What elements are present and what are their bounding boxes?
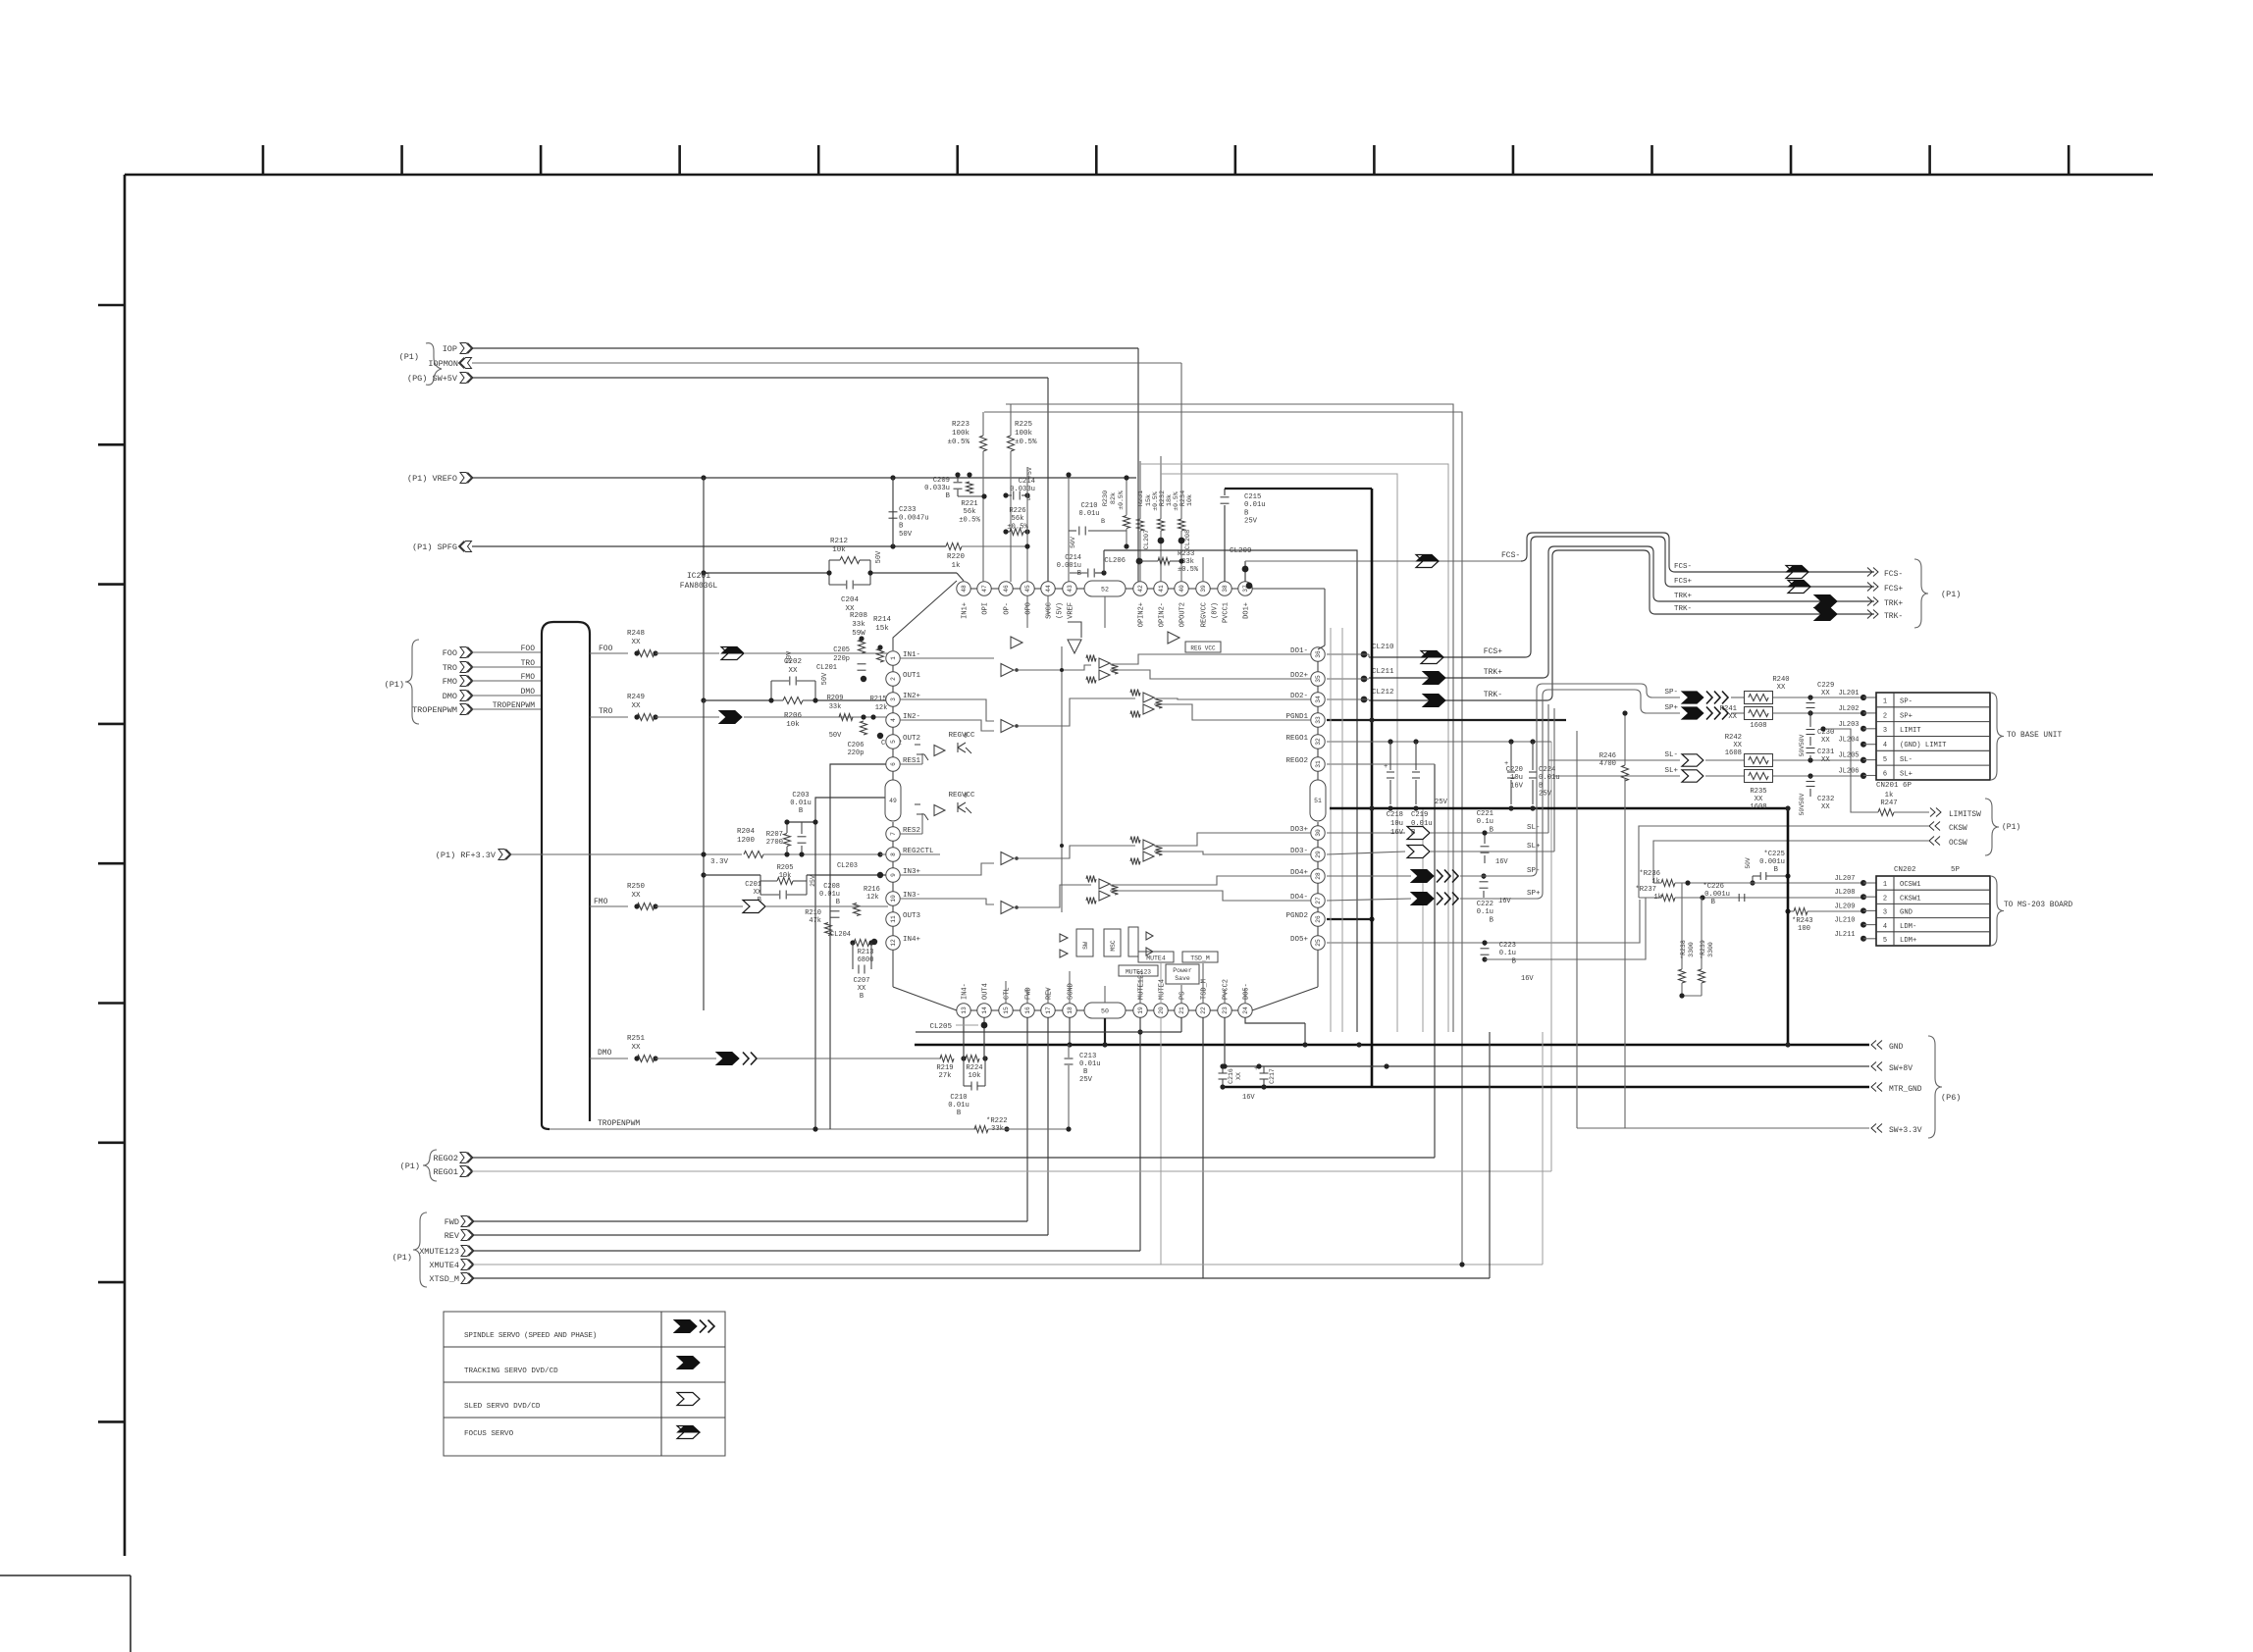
svg-text:1608: 1608 [1750, 803, 1766, 811]
svg-text:SVCC: SVCC [1046, 602, 1054, 619]
svg-text:JL210: JL210 [1834, 917, 1855, 925]
svg-text:33k: 33k [829, 703, 842, 711]
svg-text:SP+: SP+ [1664, 704, 1678, 712]
svg-text:*R222: *R222 [986, 1117, 1008, 1125]
svg-text:XX: XX [1728, 713, 1737, 721]
svg-text:25: 25 [1315, 939, 1322, 947]
svg-text:GND: GND [1900, 909, 1912, 917]
svg-text:SP-: SP- [1664, 689, 1678, 697]
svg-text:C206: C206 [848, 742, 865, 749]
svg-text:SP+: SP+ [1527, 890, 1541, 898]
svg-text:TRK+: TRK+ [1484, 668, 1502, 677]
svg-text:XX: XX [1821, 737, 1830, 745]
svg-text:220p: 220p [833, 655, 850, 663]
svg-text:OPIN2+: OPIN2+ [1138, 602, 1146, 627]
svg-text:PVCC2: PVCC2 [1223, 979, 1231, 1000]
svg-text:10k: 10k [832, 546, 846, 554]
svg-text:12: 12 [890, 939, 897, 947]
svg-text:23: 23 [1222, 1007, 1229, 1014]
svg-text:12k: 12k [866, 894, 879, 902]
svg-text:TROPENPWM: TROPENPWM [412, 705, 457, 715]
svg-text:33: 33 [1315, 716, 1322, 724]
svg-text:50V: 50V [899, 531, 913, 539]
svg-text:C217: C217 [1269, 1068, 1276, 1084]
svg-text:FAN8036L: FAN8036L [680, 582, 718, 591]
svg-text:MUTE4: MUTE4 [1146, 955, 1166, 962]
svg-text:(5V): (5V) [1057, 602, 1065, 619]
svg-text:C220: C220 [1506, 766, 1523, 774]
svg-text:7: 7 [890, 832, 897, 836]
svg-text:10: 10 [890, 895, 897, 903]
svg-text:DMO: DMO [443, 692, 457, 701]
svg-text:(P1): (P1) [400, 1162, 420, 1171]
svg-text:+: + [1254, 1065, 1258, 1073]
svg-text:39: 39 [1200, 585, 1207, 593]
svg-text:C233: C233 [899, 506, 917, 514]
svg-text:6: 6 [890, 762, 897, 766]
svg-text:B: B [1077, 570, 1081, 578]
svg-text:13: 13 [961, 1007, 968, 1014]
svg-text:50V50V: 50V50V [1799, 734, 1806, 756]
svg-text:(P1): (P1) [393, 1253, 412, 1263]
svg-text:OUT4: OUT4 [982, 983, 990, 1000]
svg-text:0.01u: 0.01u [1078, 510, 1099, 518]
svg-text:16V: 16V [1521, 975, 1534, 983]
svg-text:C218: C218 [1387, 811, 1403, 819]
svg-text:21: 21 [1179, 1007, 1185, 1014]
svg-text:JL209: JL209 [1834, 903, 1855, 910]
svg-text:(8V): (8V) [1212, 602, 1220, 619]
svg-text:XX: XX [1733, 742, 1742, 749]
svg-text:LIMITSW: LIMITSW [1949, 811, 1981, 819]
svg-text:R225: R225 [1015, 421, 1033, 429]
svg-text:CL208: CL208 [1184, 530, 1192, 549]
svg-text:R221: R221 [961, 500, 977, 508]
svg-text:(P1) SPFG: (P1) SPFG [412, 542, 457, 552]
svg-text:B: B [799, 807, 804, 815]
svg-text:CKSW: CKSW [1949, 825, 1967, 833]
svg-text:DO5+: DO5+ [1290, 936, 1309, 944]
svg-text:C213: C213 [1079, 1053, 1096, 1060]
svg-text:4700: 4700 [1599, 760, 1616, 768]
svg-text:B: B [1711, 899, 1716, 906]
svg-text:5: 5 [1883, 756, 1887, 764]
svg-text:10k: 10k [969, 1072, 981, 1080]
svg-text:XMUTE123: XMUTE123 [419, 1247, 459, 1257]
svg-text:MUTE123: MUTE123 [1126, 969, 1151, 976]
svg-text:45: 45 [1024, 585, 1031, 593]
svg-text:R205: R205 [777, 864, 794, 872]
svg-text:8: 8 [890, 852, 897, 856]
svg-text:50V: 50V [1745, 857, 1752, 869]
svg-text:OUT3: OUT3 [903, 912, 921, 920]
svg-text:26: 26 [1315, 915, 1322, 923]
svg-text:LDM+: LDM+ [1900, 937, 1916, 945]
svg-text:TRK+: TRK+ [1884, 599, 1903, 608]
svg-text:OCSW1: OCSW1 [1900, 881, 1921, 889]
svg-text:2: 2 [1883, 712, 1887, 720]
svg-text:16: 16 [1024, 1007, 1031, 1014]
svg-text:TRACKING SERVO DVD/CD: TRACKING SERVO DVD/CD [464, 1368, 558, 1375]
svg-text:C208: C208 [823, 883, 840, 891]
svg-text:SPINDLE SERVO (SPEED AND PHASE: SPINDLE SERVO (SPEED AND PHASE) [464, 1332, 597, 1340]
svg-text:R224: R224 [966, 1064, 982, 1072]
svg-text:LIMIT: LIMIT [1900, 727, 1921, 735]
svg-text:PS: PS [1179, 992, 1187, 1000]
svg-text:22: 22 [1200, 1007, 1207, 1014]
svg-text:JL203: JL203 [1838, 721, 1859, 729]
svg-text:3300: 3300 [1707, 942, 1714, 957]
svg-text:R246: R246 [1599, 752, 1616, 760]
svg-text:TRO: TRO [521, 659, 536, 668]
svg-text:TROPENPWM: TROPENPWM [493, 701, 535, 710]
svg-text:C222: C222 [1477, 901, 1493, 908]
svg-text:FCS+: FCS+ [1484, 647, 1502, 656]
svg-text:REGO2: REGO2 [433, 1154, 458, 1163]
svg-text:FOO: FOO [599, 645, 613, 653]
svg-text:R219: R219 [936, 1064, 953, 1072]
svg-text:C229: C229 [1817, 682, 1834, 690]
svg-text:TSD_M: TSD_M [1201, 979, 1209, 1000]
svg-text:SL+: SL+ [1900, 771, 1912, 779]
svg-text:CTL: CTL [1004, 987, 1012, 1000]
svg-text:XX: XX [631, 702, 641, 710]
svg-text:FOCUS SERVO: FOCUS SERVO [464, 1430, 514, 1438]
svg-text:25V: 25V [1079, 1076, 1093, 1084]
svg-text:SL+: SL+ [1527, 843, 1541, 851]
svg-text:1: 1 [1883, 881, 1887, 889]
svg-text:SW: SW [1082, 942, 1089, 950]
svg-text:3: 3 [1883, 727, 1887, 735]
svg-text:CN201 6P: CN201 6P [1876, 782, 1912, 790]
svg-text:R242: R242 [1725, 734, 1742, 742]
svg-text:JL208: JL208 [1834, 889, 1855, 897]
svg-text:51: 51 [1314, 798, 1322, 804]
svg-text:B: B [946, 492, 951, 500]
svg-text:FOO: FOO [521, 645, 536, 653]
svg-text:FCS-: FCS- [1674, 563, 1692, 571]
svg-text:50V: 50V [1070, 537, 1076, 548]
svg-text:R223: R223 [952, 421, 970, 429]
svg-text:C219: C219 [1411, 811, 1428, 819]
svg-text:(P1): (P1) [385, 680, 404, 690]
svg-text:±0.5%: ±0.5% [1173, 491, 1179, 511]
svg-text:XMUTE4: XMUTE4 [429, 1261, 459, 1270]
svg-text:17: 17 [1045, 1007, 1052, 1014]
svg-text:MUTE4: MUTE4 [1159, 979, 1167, 1000]
svg-text:IC201: IC201 [687, 572, 710, 581]
svg-text:TRO: TRO [599, 707, 613, 716]
svg-text:B: B [1244, 509, 1249, 517]
svg-text:B: B [860, 993, 864, 1001]
svg-text:1: 1 [890, 656, 897, 660]
svg-text:XX: XX [1777, 684, 1786, 692]
svg-text:JL204: JL204 [1838, 737, 1859, 745]
svg-text:43: 43 [1067, 585, 1074, 593]
svg-text:JL211: JL211 [1834, 931, 1855, 939]
svg-text:C210: C210 [1081, 502, 1098, 510]
svg-text:44: 44 [1045, 585, 1052, 593]
svg-text:B: B [1774, 866, 1779, 874]
svg-text:C216: C216 [1228, 1068, 1234, 1084]
svg-text:0.1u: 0.1u [1477, 818, 1493, 826]
svg-text:0.01u: 0.01u [1539, 774, 1560, 782]
svg-text:82k: 82k [1110, 492, 1118, 504]
svg-text:B: B [1101, 518, 1105, 526]
svg-text:REV: REV [1046, 987, 1054, 1000]
svg-text:XX: XX [858, 985, 866, 993]
svg-text:1k: 1k [1885, 792, 1894, 800]
svg-text:*R239: *R239 [1700, 940, 1706, 959]
svg-text:0.01u: 0.01u [948, 1102, 969, 1110]
svg-text:MTR_GND: MTR_GND [1889, 1085, 1922, 1094]
svg-text:(P1): (P1) [399, 352, 419, 362]
svg-text:29: 29 [1315, 851, 1322, 858]
svg-text:47: 47 [981, 585, 988, 593]
svg-text:R210: R210 [805, 909, 821, 917]
svg-text:10u: 10u [1390, 820, 1403, 828]
svg-text:CL209: CL209 [1230, 547, 1252, 555]
svg-text:4: 4 [1883, 923, 1887, 931]
svg-text:1608: 1608 [1725, 749, 1742, 757]
svg-text:SP-: SP- [1527, 867, 1541, 875]
svg-text:0.001u: 0.001u [1759, 858, 1785, 866]
svg-text:38: 38 [1222, 585, 1229, 593]
svg-text:5: 5 [890, 740, 897, 744]
svg-text:0.1u: 0.1u [1499, 950, 1516, 957]
svg-text:49: 49 [889, 798, 897, 804]
svg-text:C204: C204 [841, 596, 860, 604]
svg-text:B: B [1083, 1068, 1088, 1076]
svg-text:C221: C221 [1477, 810, 1493, 818]
svg-text:52: 52 [1101, 586, 1109, 593]
svg-text:±0.5%: ±0.5% [947, 439, 969, 446]
svg-text:*R243: *R243 [1792, 917, 1813, 925]
svg-text:IN4-: IN4- [962, 983, 969, 1000]
svg-text:42: 42 [1137, 585, 1144, 593]
svg-text:50V: 50V [829, 732, 842, 740]
svg-text:31: 31 [1315, 760, 1322, 768]
svg-text:XX: XX [631, 639, 641, 646]
svg-text:R215: R215 [870, 696, 887, 703]
svg-text:C224: C224 [1539, 766, 1555, 774]
svg-text:R249: R249 [627, 694, 645, 701]
svg-text:35: 35 [1315, 675, 1322, 683]
svg-text:JL201: JL201 [1838, 690, 1859, 697]
svg-text:R220: R220 [947, 553, 966, 561]
svg-text:CL207: CL207 [1143, 530, 1151, 549]
svg-text:IN1+: IN1+ [962, 602, 969, 619]
svg-text:OP-: OP- [1004, 602, 1012, 615]
svg-text:PGND2: PGND2 [1285, 912, 1308, 920]
svg-text:TROPENPWM: TROPENPWM [598, 1119, 640, 1128]
svg-text:B: B [1490, 916, 1494, 924]
svg-text:SGND: SGND [1068, 983, 1075, 1000]
svg-text:SL-: SL- [1527, 824, 1541, 832]
svg-text:OPOUT2: OPOUT2 [1179, 602, 1187, 627]
svg-text:C210: C210 [950, 1094, 967, 1102]
svg-text:FMO: FMO [594, 898, 608, 906]
svg-text:±0.5%: ±0.5% [1015, 439, 1037, 446]
svg-text:TRK-: TRK- [1674, 605, 1692, 613]
svg-text:R247: R247 [1880, 800, 1897, 807]
svg-text:C223: C223 [1499, 942, 1516, 950]
svg-text:B: B [836, 899, 840, 906]
svg-text:C214: C214 [1065, 554, 1081, 562]
svg-text:0.1u: 0.1u [1477, 908, 1493, 916]
svg-text:CL212: CL212 [1372, 689, 1394, 697]
svg-text:SW+8V: SW+8V [1889, 1064, 1912, 1073]
svg-text:GND: GND [1889, 1043, 1904, 1052]
svg-text:XX: XX [1235, 1072, 1242, 1080]
svg-text:OUT2: OUT2 [903, 735, 920, 743]
svg-text:0.01u: 0.01u [790, 800, 812, 807]
svg-text:±0.5%: ±0.5% [1178, 566, 1199, 574]
svg-text:±0.5%: ±0.5% [959, 516, 980, 524]
svg-text:XTSD_M: XTSD_M [429, 1274, 459, 1284]
svg-text:10k: 10k [1186, 494, 1194, 506]
svg-text:C202: C202 [784, 658, 802, 666]
svg-text:CL201: CL201 [816, 664, 837, 672]
svg-text:FCS-: FCS- [1884, 570, 1903, 579]
svg-text:2: 2 [1883, 895, 1887, 903]
svg-text:34: 34 [1315, 696, 1322, 703]
svg-text:R230: R230 [1102, 490, 1110, 506]
svg-text:16V: 16V [1242, 1094, 1255, 1102]
svg-text:XX: XX [1821, 756, 1830, 764]
svg-text:R250: R250 [627, 883, 646, 891]
svg-text:R214: R214 [873, 616, 892, 624]
svg-text:XX: XX [1821, 690, 1830, 697]
svg-text:FMO: FMO [443, 677, 457, 687]
svg-text:(P1) VREFO: (P1) VREFO [407, 474, 457, 484]
svg-text:R209: R209 [827, 695, 844, 702]
svg-text:50V: 50V [821, 672, 829, 685]
svg-text:(P1): (P1) [2002, 823, 2020, 832]
svg-text:27k: 27k [939, 1072, 952, 1080]
svg-text:OCSW: OCSW [1949, 840, 1967, 848]
svg-text:11: 11 [890, 915, 897, 923]
svg-text:±0.5%: ±0.5% [1118, 490, 1125, 510]
svg-text:VREF: VREF [1068, 602, 1075, 619]
svg-text:36: 36 [1315, 650, 1322, 658]
svg-text:DO5-: DO5- [1243, 983, 1251, 1000]
svg-text:33k: 33k [852, 621, 865, 629]
svg-text:C205: C205 [833, 646, 850, 654]
svg-text:JL202: JL202 [1838, 705, 1859, 713]
svg-text:*R236: *R236 [1639, 870, 1660, 878]
svg-text:C230: C230 [1817, 729, 1834, 737]
svg-text:SP-: SP- [1900, 698, 1912, 706]
svg-text:IOPMON: IOPMON [428, 359, 458, 369]
svg-text:SL-: SL- [1664, 751, 1678, 759]
svg-text:R216: R216 [864, 886, 880, 894]
svg-text:CL203: CL203 [837, 862, 858, 870]
svg-text:OPO: OPO [1025, 602, 1033, 615]
svg-text:6: 6 [1883, 771, 1887, 779]
svg-text:1200: 1200 [737, 837, 756, 845]
svg-text:FWD: FWD [445, 1217, 459, 1227]
svg-text:MSC: MSC [1110, 940, 1117, 951]
svg-text:R226: R226 [1009, 507, 1025, 515]
svg-text:(P1) RF+3.3V: (P1) RF+3.3V [436, 851, 497, 860]
svg-text:0.01u: 0.01u [1411, 820, 1433, 828]
svg-text:R231: R231 [1137, 490, 1145, 506]
svg-text:1608: 1608 [1750, 722, 1766, 730]
svg-text:R251: R251 [627, 1035, 646, 1043]
svg-text:0.01u: 0.01u [1079, 1060, 1101, 1068]
svg-text:REGVCC: REGVCC [1201, 602, 1209, 627]
svg-text:IOP: IOP [443, 344, 457, 354]
svg-text:C215: C215 [1244, 493, 1261, 501]
svg-text:OPI: OPI [982, 602, 990, 615]
svg-text:Save: Save [1175, 975, 1190, 982]
svg-text:24: 24 [1242, 1007, 1249, 1014]
svg-text:48: 48 [961, 585, 968, 593]
svg-text:FCS-: FCS- [1501, 551, 1520, 560]
svg-text:SLED SERVO DVD/CD: SLED SERVO DVD/CD [464, 1403, 541, 1411]
svg-text:B: B [899, 523, 904, 531]
svg-text:REGO1: REGO1 [1285, 735, 1308, 743]
svg-text:TSD_M: TSD_M [1190, 955, 1210, 962]
svg-text:220p: 220p [848, 749, 865, 757]
svg-text:TO BASE UNIT: TO BASE UNIT [2007, 732, 2062, 740]
svg-text:*R237: *R237 [1635, 886, 1656, 894]
svg-text:R212: R212 [830, 538, 848, 545]
svg-text:R240: R240 [1772, 676, 1789, 684]
svg-text:DO1+: DO1+ [1243, 602, 1251, 619]
svg-text:59W: 59W [852, 630, 865, 638]
svg-text:B: B [1490, 826, 1494, 834]
svg-text:R235: R235 [1750, 788, 1766, 796]
svg-text:R241: R241 [1720, 705, 1737, 713]
svg-text:B: B [957, 1110, 962, 1117]
svg-text:R248: R248 [627, 630, 645, 638]
svg-text:OPIN2-: OPIN2- [1159, 602, 1167, 627]
svg-text:R206: R206 [784, 712, 803, 720]
svg-text:TO MS-203 BOARD: TO MS-203 BOARD [2004, 902, 2073, 909]
svg-text:40: 40 [1179, 585, 1185, 593]
svg-text:SW+3.3V: SW+3.3V [1889, 1126, 1922, 1135]
svg-text:32: 32 [1315, 738, 1322, 746]
svg-text:20: 20 [1158, 1007, 1165, 1014]
svg-text:3: 3 [890, 697, 897, 701]
svg-text:IN4+: IN4+ [903, 936, 921, 944]
svg-text:FCS+: FCS+ [1674, 578, 1693, 586]
svg-text:9: 9 [890, 873, 897, 877]
svg-text:0.01u: 0.01u [819, 891, 840, 899]
svg-text:LDM-: LDM- [1900, 923, 1916, 931]
svg-text:16V: 16V [1495, 858, 1508, 866]
svg-text:XX: XX [754, 889, 762, 897]
svg-text:C231: C231 [1817, 749, 1834, 756]
svg-text:2: 2 [890, 677, 897, 681]
svg-text:R233: R233 [1178, 550, 1194, 558]
svg-text:CL205: CL205 [929, 1023, 952, 1031]
svg-text:OUT1: OUT1 [903, 672, 921, 680]
svg-text:CL211: CL211 [1372, 668, 1394, 676]
svg-text:C203: C203 [792, 792, 809, 800]
svg-text:30: 30 [1315, 829, 1322, 837]
svg-text:FOO: FOO [443, 648, 457, 658]
svg-text:56k: 56k [1012, 515, 1024, 523]
svg-text:REV: REV [445, 1231, 460, 1241]
svg-text:100k: 100k [952, 430, 970, 438]
svg-text:15k: 15k [875, 625, 889, 633]
svg-text:*C225: *C225 [1763, 851, 1785, 858]
svg-text:R207: R207 [766, 831, 783, 839]
svg-text:±0.5%: ±0.5% [1152, 491, 1159, 511]
